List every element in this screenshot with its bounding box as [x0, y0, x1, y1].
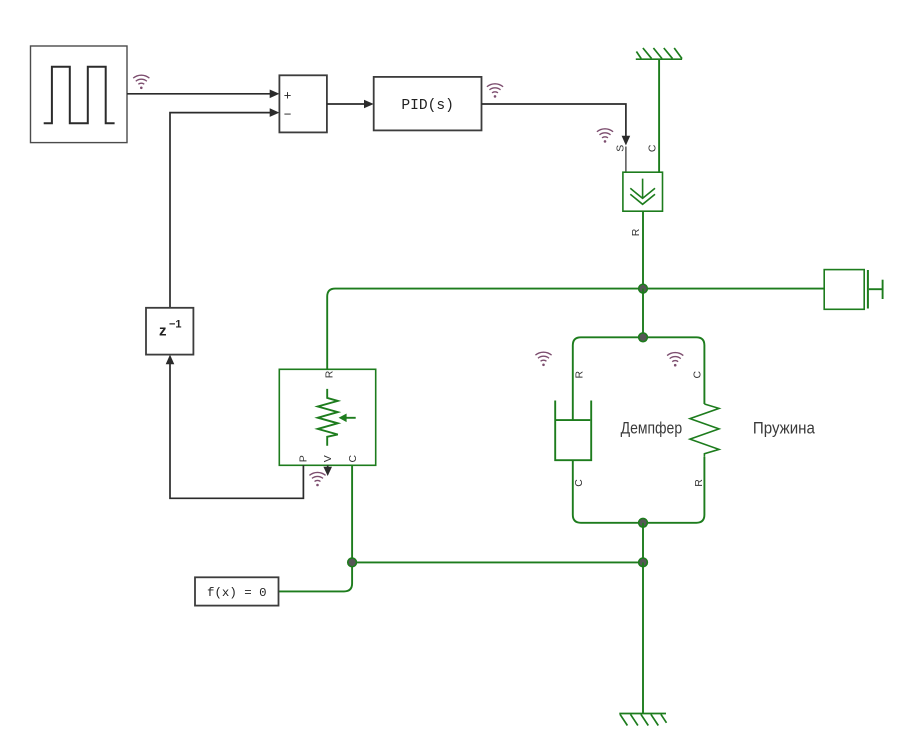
node A junction [639, 284, 648, 293]
wire P port to z-1 input [166, 355, 304, 499]
wire force source R to node A [642, 211, 644, 288]
wifi badge PID output [487, 84, 503, 98]
wire node A to node B [642, 289, 644, 338]
svg-text:R: R [693, 479, 705, 487]
svg-text:−1: −1 [169, 318, 182, 330]
mass block [824, 270, 882, 310]
node E junction [348, 558, 357, 567]
PID controller block [374, 77, 482, 130]
wifi badge near S port [597, 129, 613, 143]
svg-text:−: − [284, 107, 292, 122]
svg-text:R: R [630, 228, 642, 236]
wire ground top to force source C port [658, 59, 660, 172]
svg-text:R: R [323, 370, 335, 378]
ground top [636, 48, 682, 59]
wire PID to force source S port [482, 104, 631, 172]
wire solver block to node E [279, 562, 353, 591]
wifi badge near P port [309, 472, 325, 486]
svg-text:C: C [691, 370, 703, 378]
wire pulse generator to sum + input [127, 90, 279, 99]
V port output arrow [323, 465, 332, 476]
solver configuration block f(x)=0 [195, 577, 279, 605]
svg-text:C: C [646, 144, 658, 152]
network loop right top (spring C side) [643, 337, 704, 404]
node C junction bottom of loop [639, 518, 648, 527]
svg-text:Демпфер: Демпфер [621, 420, 683, 438]
svg-text:P: P [298, 455, 310, 462]
wifi badge damper R [535, 352, 551, 366]
svg-text:V: V [322, 455, 334, 462]
svg-text:z: z [159, 323, 167, 340]
wire node D to ground bottom [642, 562, 644, 713]
network loop left top (to damper) [573, 337, 643, 420]
main horizontal wire to mass and damper R port [327, 289, 824, 370]
unit delay block z-1 [146, 308, 193, 355]
ideal force source block [623, 172, 663, 211]
wire variable damper C port to node E [351, 465, 353, 562]
wire sum to PID [327, 100, 374, 109]
horizontal wire node D to node E [352, 561, 643, 563]
wire node C to node D [642, 523, 644, 563]
svg-text:f(x) = 0: f(x) = 0 [207, 586, 267, 600]
damper cup [555, 401, 591, 461]
svg-text:S: S [615, 145, 627, 152]
network loop right bottom (spring R side) [643, 457, 704, 523]
damper piston plate [556, 419, 590, 421]
ground bottom [619, 714, 666, 726]
wire feedback z-1 to sum - input [170, 108, 279, 307]
svg-text:C: C [347, 454, 359, 462]
svg-text:PID(s): PID(s) [401, 98, 454, 114]
wifi badge spring C [667, 353, 683, 367]
svg-text:R: R [574, 370, 586, 378]
spring zigzag [690, 404, 719, 457]
variable translational damper block [279, 369, 375, 465]
node D junction [639, 558, 648, 567]
sum block [279, 75, 327, 132]
node B junction [639, 333, 648, 342]
svg-text:C: C [573, 479, 585, 487]
wifi badge pulse output [133, 75, 149, 89]
pulse generator block [31, 46, 128, 143]
svg-text:Пружина: Пружина [753, 420, 816, 438]
svg-text:+: + [284, 88, 292, 103]
network loop left bottom (damper C side) [573, 460, 643, 523]
